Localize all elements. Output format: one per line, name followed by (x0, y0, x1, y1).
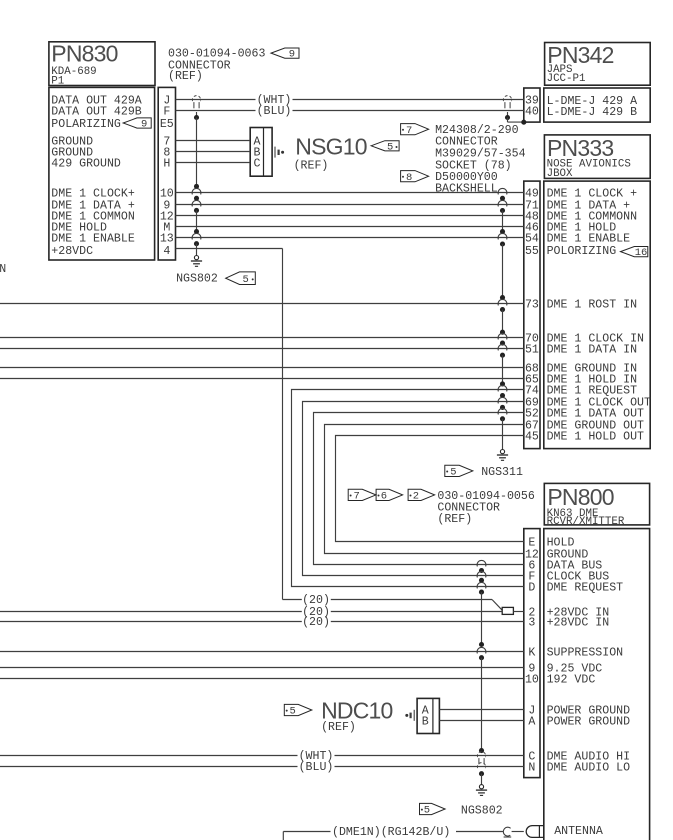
svg-text:73: 73 (525, 298, 539, 311)
svg-text:16: 16 (635, 247, 648, 259)
svg-text:N: N (528, 761, 535, 774)
svg-text:(BLU): (BLU) (299, 761, 334, 774)
svg-text:+28VDC: +28VDC (51, 245, 93, 258)
svg-text:NGS802: NGS802 (176, 273, 218, 286)
svg-text:H: H (163, 157, 170, 170)
svg-text:NSG10: NSG10 (295, 133, 366, 159)
svg-text:DME 1 ROST IN: DME 1 ROST IN (547, 298, 637, 311)
svg-text:(REF): (REF) (321, 721, 356, 734)
svg-text:F: F (163, 105, 170, 118)
svg-text:SUPPRESSION: SUPPRESSION (547, 646, 624, 659)
svg-text:7: 7 (353, 491, 359, 503)
svg-text:PN800: PN800 (547, 484, 613, 510)
svg-text:N: N (0, 263, 6, 276)
svg-text:POWER GROUND: POWER GROUND (547, 715, 631, 728)
svg-text:L-DME-J 429 B: L-DME-J 429 B (547, 106, 637, 119)
svg-text:(REF): (REF) (294, 159, 329, 172)
svg-text:9: 9 (141, 119, 147, 131)
svg-text:DME AUDIO LO: DME AUDIO LO (547, 761, 631, 774)
svg-text:JBOX: JBOX (547, 168, 573, 180)
svg-text:5: 5 (424, 805, 430, 817)
svg-text:6: 6 (381, 491, 387, 503)
svg-text:NGS802: NGS802 (461, 804, 503, 817)
svg-text:ANTENNA: ANTENNA (554, 825, 603, 838)
svg-text:3: 3 (528, 616, 535, 629)
svg-text:40: 40 (525, 106, 539, 119)
svg-text:9: 9 (289, 49, 295, 61)
svg-text:C: C (254, 157, 261, 170)
svg-text:10: 10 (525, 673, 539, 686)
svg-text:RCVR/XMITTER: RCVR/XMITTER (547, 516, 625, 528)
svg-text:(DME1N)(RG142B/U): (DME1N)(RG142B/U) (332, 826, 450, 839)
svg-text:54: 54 (525, 232, 539, 245)
svg-text:5: 5 (387, 141, 393, 153)
svg-text:5: 5 (289, 706, 295, 718)
svg-text:DME REQUEST: DME REQUEST (547, 581, 624, 594)
svg-text:429 GROUND: 429 GROUND (51, 157, 121, 170)
svg-text:13: 13 (160, 232, 174, 245)
svg-text:PN830: PN830 (51, 40, 117, 66)
svg-text:P1: P1 (51, 76, 64, 88)
svg-text:8: 8 (406, 172, 412, 184)
svg-text:DME 1 DATA IN: DME 1 DATA IN (547, 343, 637, 356)
svg-text:DME 1 ENABLE: DME 1 ENABLE (51, 232, 135, 245)
svg-text:(20): (20) (302, 616, 330, 629)
svg-text:5: 5 (450, 467, 456, 479)
svg-text:(REF): (REF) (437, 513, 472, 526)
svg-text:2: 2 (413, 491, 419, 503)
svg-text:192 VDC: 192 VDC (547, 673, 596, 686)
svg-text:NDC10: NDC10 (321, 698, 392, 724)
svg-text:45: 45 (525, 430, 539, 443)
svg-text:PN333: PN333 (547, 135, 613, 161)
svg-text:NGS311: NGS311 (481, 466, 523, 479)
svg-text:BACKSHELL: BACKSHELL (435, 183, 498, 196)
svg-text:JCC-P1: JCC-P1 (547, 73, 586, 85)
svg-text:7: 7 (406, 125, 412, 137)
svg-text:DME 1 HOLD OUT: DME 1 HOLD OUT (547, 430, 644, 443)
svg-text:POLORIZING: POLORIZING (547, 245, 617, 258)
svg-text:5: 5 (242, 274, 248, 286)
svg-text:K: K (528, 646, 535, 659)
svg-text:+28VDC IN: +28VDC IN (547, 616, 610, 629)
svg-text:55: 55 (525, 245, 539, 258)
svg-text:B: B (422, 715, 429, 728)
svg-text:(BLU): (BLU) (257, 105, 292, 118)
svg-text:A: A (528, 715, 535, 728)
svg-text:E5: E5 (160, 118, 174, 131)
svg-text:D: D (528, 581, 535, 594)
svg-text:DME 1 ENABLE: DME 1 ENABLE (547, 232, 631, 245)
svg-text:(REF): (REF) (168, 70, 203, 83)
svg-text:4: 4 (163, 245, 170, 258)
svg-text:POLARIZING: POLARIZING (51, 118, 121, 131)
svg-text:51: 51 (525, 343, 539, 356)
svg-text:DATA OUT 429B: DATA OUT 429B (51, 105, 141, 118)
